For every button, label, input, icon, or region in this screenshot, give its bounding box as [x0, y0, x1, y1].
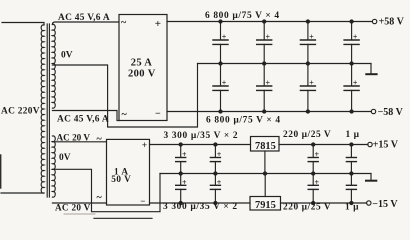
capacitor C4 6800u	[344, 20, 359, 65]
svg-text:+: +	[182, 150, 187, 159]
svg-text:~: ~	[121, 18, 127, 29]
wire 0V centre tap of 20V winding routed under bridge B2	[52, 169, 160, 211]
output terminal +15V	[368, 142, 372, 146]
wire AC45 bottom to bridge	[52, 111, 119, 121]
junction regulators ground	[263, 172, 266, 175]
svg-text:−58 V: −58 V	[378, 107, 404, 118]
capacitor C1 6800u	[213, 20, 228, 65]
capacitor C9 3300u	[176, 143, 187, 175]
svg-text:+: +	[217, 150, 222, 159]
svg-text:+: +	[222, 79, 227, 88]
svg-text:AC 45 V,6 A: AC 45 V,6 A	[58, 13, 110, 23]
svg-text:~: ~	[97, 134, 103, 145]
wire AC20 top to bridge B2	[52, 141, 106, 143]
0V mid rail upper	[198, 63, 372, 65]
output terminal -58V	[371, 109, 375, 113]
0V mid rail lower	[160, 173, 371, 175]
svg-text:−: −	[140, 196, 145, 206]
svg-text:7915: 7915	[255, 200, 276, 211]
capacitor C13 220u	[308, 143, 319, 175]
-15V rail	[150, 202, 251, 204]
svg-text:3 300 µ/35 V × 2: 3 300 µ/35 V × 2	[163, 202, 238, 212]
regulator U2 7915 box	[250, 197, 281, 211]
regulator U1 7815 box	[251, 137, 280, 152]
svg-text:+: +	[353, 79, 358, 88]
svg-text:50 V: 50 V	[111, 174, 131, 184]
capacitor C11 3300u	[176, 174, 187, 205]
capacitor C5 6800u	[213, 64, 228, 114]
svg-text:220 µ/25 V: 220 µ/25 V	[283, 130, 331, 140]
wire 7915 ground pin	[264, 174, 266, 197]
svg-text:AC 45 V,6 A: AC 45 V,6 A	[57, 115, 109, 125]
svg-text:+: +	[217, 178, 222, 187]
bridge rectifier B1 box	[119, 15, 167, 121]
capacitor C12 3300u	[210, 174, 221, 205]
capacitor C2 6800u	[257, 20, 272, 65]
capacitor C6 6800u	[257, 64, 272, 114]
svg-text:25 A: 25 A	[131, 58, 152, 69]
capacitor C10 3300u	[210, 143, 221, 175]
scan artifact bottom edge faint	[64, 213, 95, 215]
scan artifact left edge	[0, 155, 2, 188]
transformer T1 primary winding	[1, 23, 44, 194]
wire AC45 top to bridge	[52, 22, 119, 25]
wire AC20 bottom to bridge B2	[52, 202, 106, 204]
wire 7815 ground pin	[264, 151, 266, 174]
svg-text:+: +	[309, 79, 314, 88]
bridge B1 value label 25A 200V	[128, 58, 156, 80]
svg-text:AC 20 V: AC 20 V	[57, 132, 91, 142]
transformer T1 secondary winding 20V-0-20V	[52, 136, 55, 197]
svg-text:+: +	[353, 33, 358, 42]
capacitor C16 1u	[346, 174, 356, 205]
output terminal -15V	[367, 201, 371, 205]
bridge rectifier B2 box	[107, 139, 150, 205]
svg-text:0V: 0V	[61, 51, 73, 61]
svg-text:+: +	[182, 178, 187, 187]
svg-text:1 µ: 1 µ	[346, 130, 360, 140]
svg-text:+58 V: +58 V	[379, 17, 405, 28]
bridge B2 value label 1A 50V	[111, 166, 131, 184]
svg-text:−15 V: −15 V	[372, 199, 398, 210]
svg-text:~: ~	[97, 193, 103, 204]
capacitor C8 6800u	[344, 64, 359, 114]
svg-text:0V: 0V	[59, 153, 71, 163]
capacitor C14 220u	[308, 174, 319, 205]
svg-text:+: +	[309, 33, 314, 42]
wire 0V centre tap of 45V winding routed under bridge to 0V rail	[52, 64, 197, 128]
scan artifact bottom edge dark	[94, 217, 152, 219]
svg-text:+: +	[142, 141, 147, 151]
capacitor C3 6800u	[300, 20, 315, 65]
svg-text:6 800 µ/75 V × 4: 6 800 µ/75 V × 4	[206, 116, 281, 126]
capacitor C15 1u	[346, 143, 356, 175]
ground symbol lower	[366, 174, 376, 181]
ground symbol upper	[366, 64, 376, 75]
svg-text:~: ~	[122, 110, 128, 121]
svg-text:−: −	[155, 108, 161, 119]
svg-text:+: +	[266, 79, 271, 88]
transformer T1 secondary winding 45V-0-45V	[52, 24, 55, 108]
svg-text:6 800 µ/75 V × 4: 6 800 µ/75 V × 4	[205, 11, 280, 21]
+15V rail	[150, 144, 251, 146]
+58V rail	[167, 21, 372, 23]
svg-text:+15 V: +15 V	[373, 139, 399, 150]
svg-text:+: +	[155, 18, 161, 30]
svg-text:220 µ/25 V: 220 µ/25 V	[283, 203, 331, 213]
capacitor C7 6800u	[300, 64, 315, 114]
svg-text:1 µ: 1 µ	[345, 203, 359, 213]
svg-text:+: +	[222, 33, 227, 42]
svg-text:200 V: 200 V	[128, 69, 156, 80]
-58V rail	[167, 111, 371, 113]
svg-text:+: +	[266, 33, 271, 42]
svg-text:+: +	[315, 178, 320, 187]
svg-text:AC 220V: AC 220V	[1, 107, 40, 117]
output terminal +58V	[372, 19, 376, 23]
svg-text:AC 20 V: AC 20 V	[55, 203, 91, 213]
svg-text:3 300 µ/35 V × 2: 3 300 µ/35 V × 2	[164, 131, 239, 141]
transformer T1 core	[47, 24, 49, 197]
svg-text:+: +	[315, 150, 320, 159]
svg-text:7815: 7815	[255, 141, 276, 152]
